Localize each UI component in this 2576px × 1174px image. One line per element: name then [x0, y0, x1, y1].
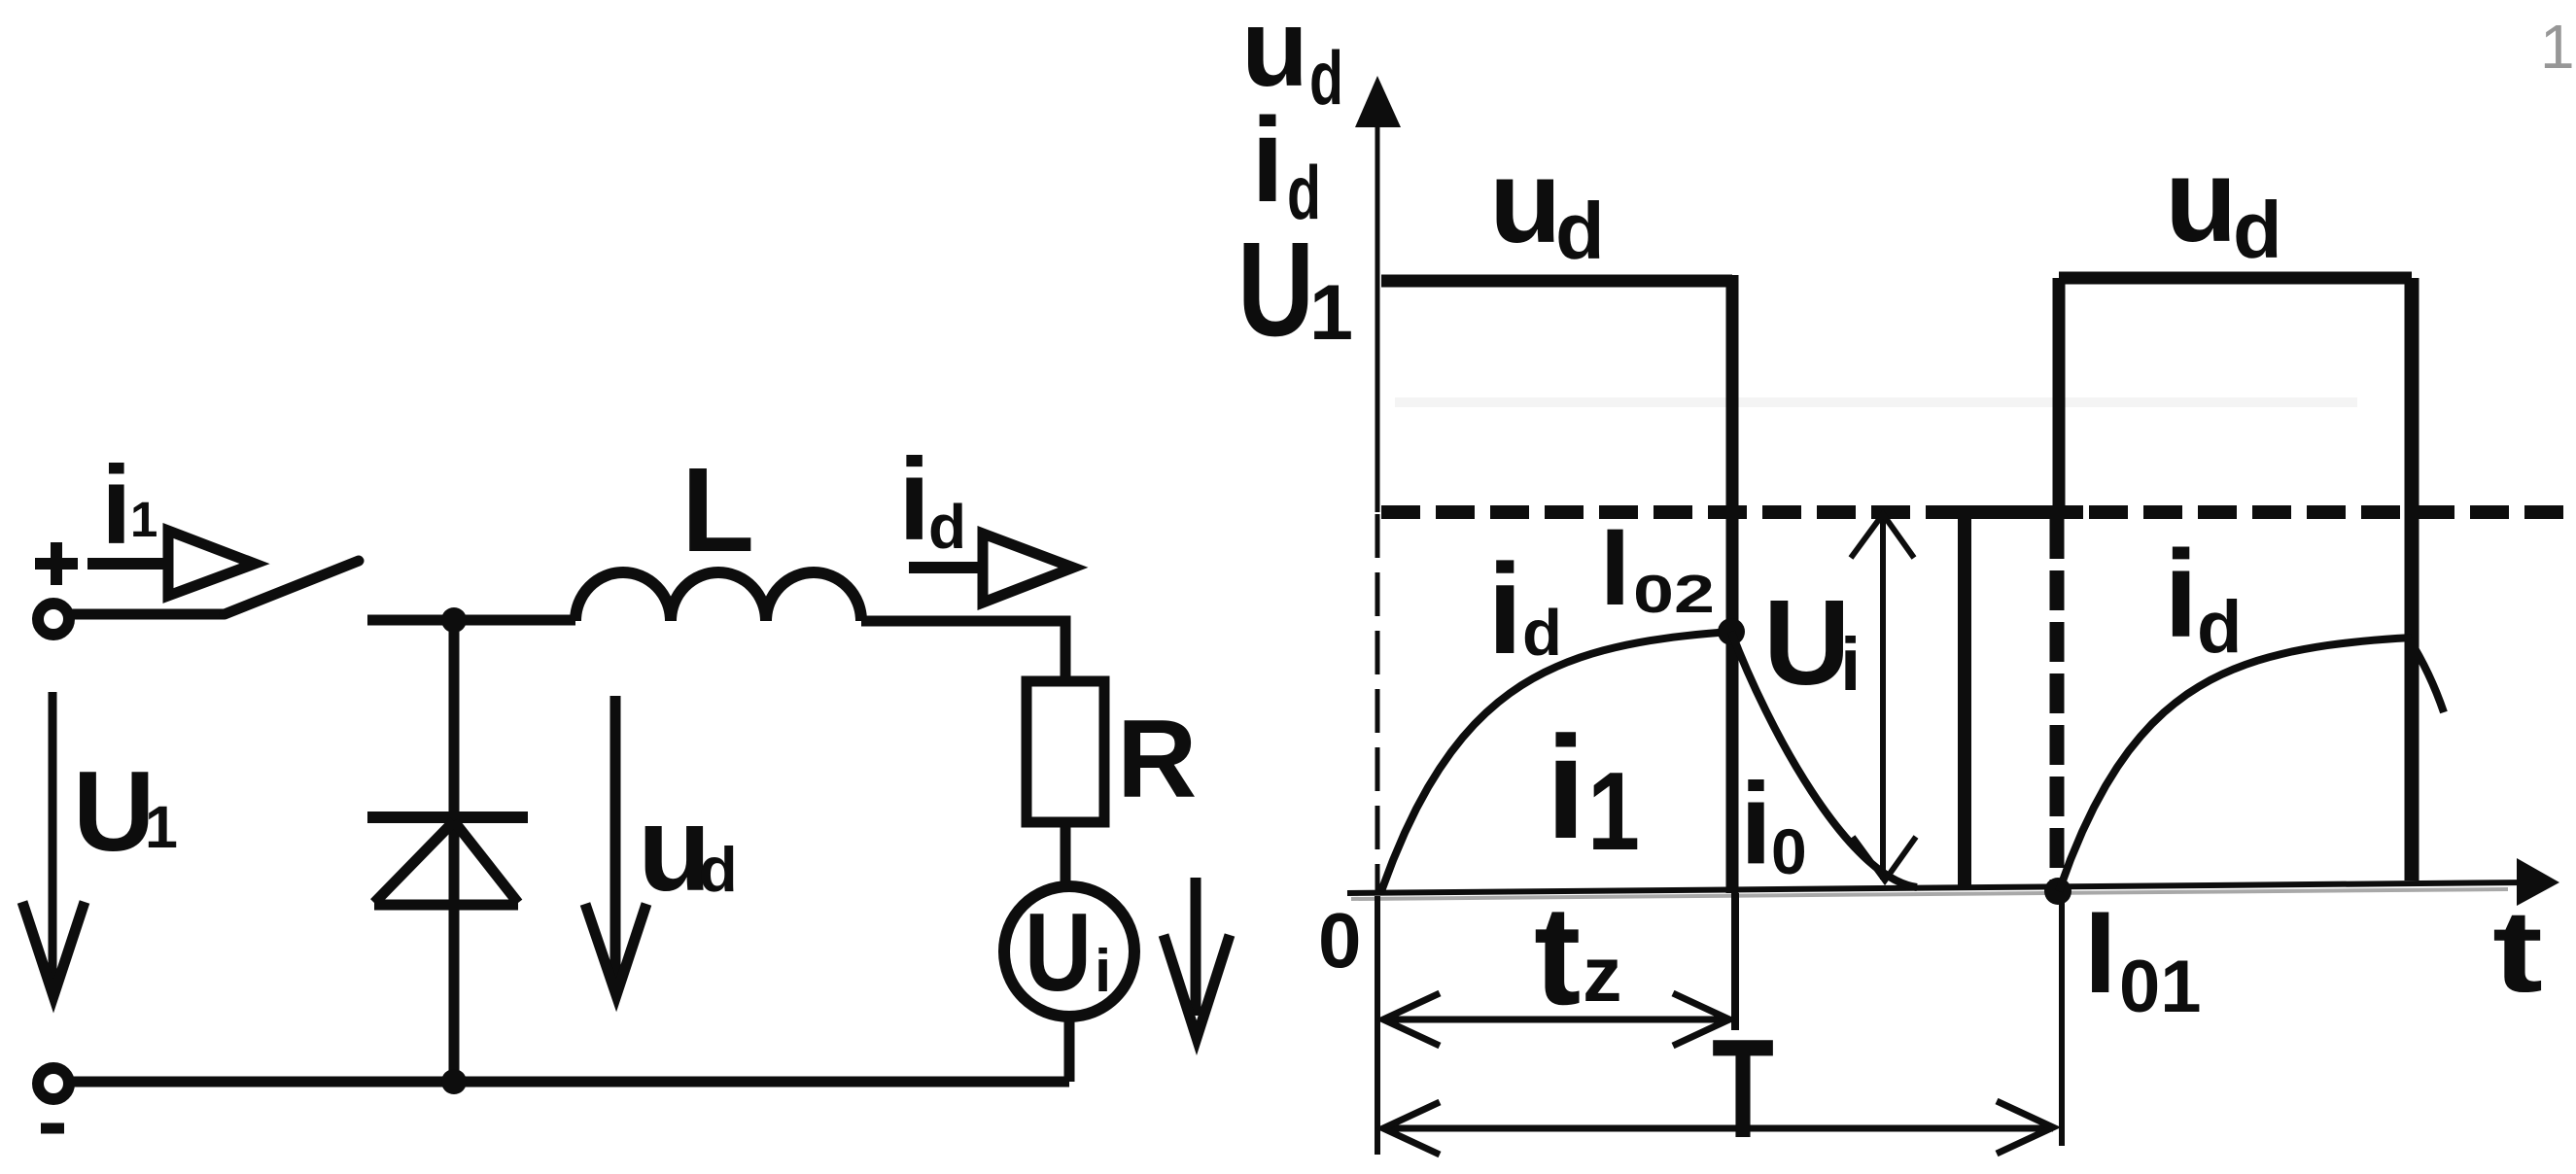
svg-text:u: u: [1241, 0, 1308, 109]
svg-text:U: U: [1237, 215, 1314, 364]
x-axis arrowhead: [2517, 858, 2559, 906]
diode D cathode bar: [367, 811, 528, 823]
svg-text:d: d: [1522, 597, 1562, 670]
waveform ud step up to Ui at current extinction: [1958, 512, 1971, 889]
arrow U1 head: [22, 902, 85, 996]
svg-text:d: d: [2233, 185, 2282, 275]
arrow Ui dimension bottom head: [1853, 837, 1916, 880]
diode D triangle (anode, pointing up): [374, 821, 518, 905]
arrow Ui dimension top head: [1851, 514, 1914, 558]
dashed vertical at t=T: [2050, 519, 2065, 893]
svg-text:1: 1: [2540, 12, 2575, 82]
wire resistor to source: [1061, 822, 1071, 881]
arrow Ui direction (downward, right of source): [1164, 878, 1230, 1038]
terminal minus (negative input terminal): [38, 1068, 69, 1099]
y-axis (ud id): [1375, 121, 1380, 512]
waveform ud first pulse top (U1 level): [1381, 275, 1732, 288]
dashed horizontal line at Ui level: [1381, 505, 2570, 519]
svg-text:0: 0: [1771, 815, 1807, 887]
voltage source Ui (circle): [1004, 886, 1134, 1017]
wire inductor to corner: [861, 621, 1065, 681]
svg-text:I: I: [2084, 887, 2116, 1018]
arrow Ui head: [1164, 935, 1230, 1038]
svg-text:U: U: [1025, 891, 1092, 1015]
svg-text:u: u: [2165, 134, 2238, 266]
svg-text:t: t: [1534, 877, 1581, 1034]
svg-text:i: i: [2164, 525, 2198, 663]
curve id decay start after second pulse: [2409, 639, 2444, 712]
x-axis (t): [1347, 882, 2527, 893]
svg-text:U: U: [1763, 576, 1851, 710]
node I01 (current restart point): [2044, 878, 2071, 905]
svg-text:i: i: [1740, 759, 1772, 888]
svg-text:d: d: [1309, 35, 1343, 121]
svg-text:i: i: [1251, 94, 1284, 227]
inductor L (three humps): [575, 572, 861, 621]
svg-text:i: i: [1546, 706, 1586, 869]
svg-text:01: 01: [2119, 946, 2202, 1028]
dimension arrow tz: [1383, 993, 1729, 1046]
svg-text:i: i: [898, 434, 930, 565]
waveform ud at Ui level until T (solid cap): [1955, 505, 2083, 519]
svg-text:d: d: [1555, 186, 1605, 276]
node I02 (peak point): [1718, 618, 1745, 645]
svg-text:1: 1: [1587, 750, 1640, 874]
arrow T right head: [1997, 1101, 2053, 1154]
svg-text:z: z: [1583, 931, 1622, 1019]
arrow id (current direction): [909, 534, 1073, 603]
svg-text:1: 1: [130, 492, 157, 547]
svg-text:I: I: [1600, 506, 1630, 628]
plus sign: [35, 542, 78, 585]
dimension arrow Ui (between dashed level and axis): [1851, 514, 1916, 880]
waveform ud second pulse top: [2059, 272, 2412, 285]
terminal plus (positive input terminal): [35, 542, 78, 635]
svg-text:d: d: [928, 492, 966, 562]
y-axis dashed segment below Ui level: [1375, 514, 1380, 893]
y-axis arrowhead: [1355, 76, 1401, 127]
arrow ud head: [585, 904, 646, 995]
svg-text:0: 0: [1318, 897, 1362, 984]
wire from switch to node A: [367, 615, 575, 626]
svg-text:i: i: [1487, 537, 1523, 680]
arrow tz right head: [1673, 993, 1729, 1046]
curve id rising (first conduction interval): [1381, 632, 1731, 891]
svg-text:d: d: [699, 834, 738, 905]
arrow i1 head (open triangle): [168, 531, 255, 596]
svg-text:u: u: [1489, 135, 1562, 267]
node A (top junction): [441, 607, 467, 633]
svg-text:L: L: [681, 444, 754, 577]
svg-text:1: 1: [1309, 269, 1353, 357]
arrow id head (open triangle): [983, 534, 1073, 603]
curve id rising (second conduction interval): [2059, 638, 2412, 891]
arrow i1 (current direction into switch): [87, 531, 255, 596]
arrow ud (output voltage direction): [585, 696, 646, 995]
extension line below origin (y-axis extension): [1375, 896, 1380, 1155]
x-axis gray shadow: [1351, 889, 2508, 899]
node B (bottom junction): [441, 1069, 467, 1094]
wire node A down to diode: [449, 620, 460, 1082]
waveform ud second pulse left edge: [2053, 278, 2066, 512]
arrow U1 (voltage direction, downward): [22, 692, 85, 996]
svg-text:d: d: [2197, 586, 2242, 669]
wire from plus terminal to switch: [69, 609, 225, 620]
resistor R: [1027, 681, 1104, 822]
minus sign: [41, 1123, 64, 1134]
svg-text:i: i: [1095, 938, 1111, 1005]
switch S (open blade): [225, 561, 359, 614]
svg-text:1: 1: [145, 794, 178, 860]
arrow tz left head: [1383, 993, 1440, 1046]
svg-text:t: t: [2492, 886, 2543, 1017]
svg-text:R: R: [1117, 698, 1197, 821]
wire source to bottom rail: [1064, 1017, 1075, 1082]
svg-text:i: i: [1840, 623, 1861, 707]
svg-text:02: 02: [1633, 564, 1715, 624]
dimension arrow T: [1383, 1101, 2053, 1155]
extension line below axis at t=T: [2059, 896, 2065, 1146]
svg-text:i: i: [101, 444, 132, 568]
svg-text:U: U: [73, 747, 156, 875]
waveform ud first pulse falling edge at tz: [1726, 275, 1739, 893]
scan streak artifact: [1395, 397, 2357, 407]
extension of tz edge below axis: [1731, 893, 1739, 1030]
svg-text:T: T: [1712, 1010, 1774, 1167]
arrow T left head: [1383, 1102, 1440, 1155]
waveform ud second pulse right edge: [2405, 278, 2419, 880]
curve i0 decay (freewheeling interval): [1731, 632, 1917, 887]
bottom wire (return rail): [69, 1077, 1069, 1088]
